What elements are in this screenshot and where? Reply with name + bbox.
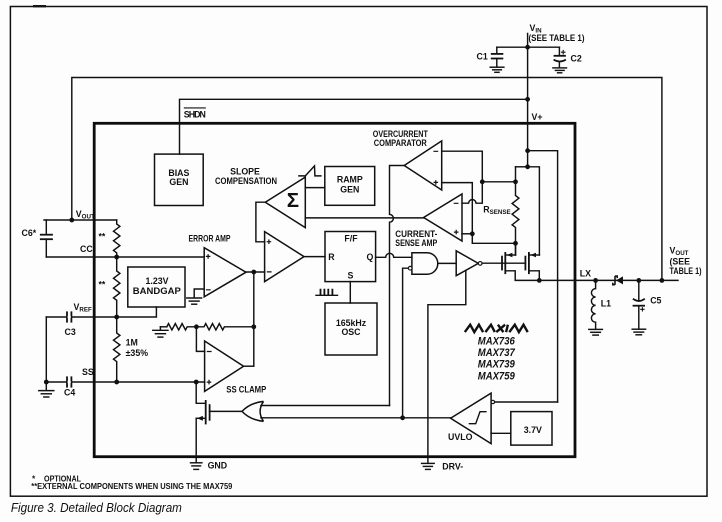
svg-text:GND: GND xyxy=(208,461,228,471)
label VIN xyxy=(529,23,585,43)
svg-text:R: R xyxy=(328,252,335,262)
wire bandgap to VREF xyxy=(46,307,156,317)
svg-text:C2: C2 xyxy=(571,53,582,63)
svg-text:ERROR AMP: ERROR AMP xyxy=(189,233,231,243)
wire current-sense output to sigma xyxy=(305,217,423,219)
svg-text:SENSE AMP: SENSE AMP xyxy=(395,238,437,248)
wire sigma output to PWM comparator xyxy=(256,202,265,242)
wire Q output with hop xyxy=(376,253,412,257)
svg-text:GEN: GEN xyxy=(169,177,188,187)
label VOUT right xyxy=(670,246,702,276)
svg-text:V+: V+ xyxy=(532,112,543,122)
node C5 junction xyxy=(636,278,641,283)
op-amp SS clamp xyxy=(205,341,244,391)
svg-text:L1: L1 xyxy=(601,298,611,308)
node VOUT feedback junction xyxy=(660,278,665,283)
svg-text:**EXTERNAL COMPONENTS WHEN USI: **EXTERNAL COMPONENTS WHEN USING THE MAX… xyxy=(31,481,232,491)
svg-text:C5: C5 xyxy=(650,296,661,306)
wire ramp gen to sigma xyxy=(305,187,325,189)
svg-text:1M: 1M xyxy=(126,338,138,348)
wire OR bottom input / UVLO output line xyxy=(261,417,451,419)
wire compensation resistor line xyxy=(160,326,166,328)
svg-text:Q: Q xyxy=(367,252,374,262)
node CC junction xyxy=(114,255,119,260)
transistor Q1 PMOS xyxy=(502,243,539,280)
node compensation mid xyxy=(194,324,199,329)
svg-text:TABLE 1): TABLE 1) xyxy=(670,266,702,276)
svg-text:C6*: C6* xyxy=(22,228,37,238)
wire gate drive line xyxy=(482,262,525,264)
svg-text:SHDN: SHDN xyxy=(184,110,206,120)
inductor L1 xyxy=(591,280,611,329)
svg-text:DRV-: DRV- xyxy=(442,461,463,471)
node SS resistor junction xyxy=(114,380,119,385)
MAXIM logo xyxy=(465,325,528,332)
svg-text:RAMP: RAMP xyxy=(337,175,363,185)
comparator PWM xyxy=(265,232,304,282)
resistor compensation left xyxy=(167,324,197,330)
clock comb icon xyxy=(316,289,338,296)
wire UVLO output xyxy=(495,401,558,403)
ground DRV- pin xyxy=(422,461,464,471)
capacitor C1 xyxy=(477,47,504,67)
ground under L1 xyxy=(589,329,603,335)
node compensation right xyxy=(251,324,256,329)
comparator overcurrent xyxy=(404,141,442,190)
wire sense top to Rsense xyxy=(482,181,515,183)
diode D1 schottky xyxy=(613,276,623,285)
wire V+ to UVLO sense xyxy=(528,151,558,402)
resistor compensation right xyxy=(196,324,252,330)
wire SS line xyxy=(46,381,204,383)
capacitor C5 xyxy=(633,280,662,328)
oscillator box 165kHz OSC xyxy=(325,303,377,355)
IC boundary box MAX736/737/739/759 xyxy=(94,123,575,456)
svg-text:OSC: OSC xyxy=(341,327,361,337)
wire OR top input from overcurrent xyxy=(261,405,390,407)
svg-text:Σ: Σ xyxy=(287,189,299,212)
node V+ branch xyxy=(525,148,530,153)
svg-text:Figure 3. Detailed Block Diagr: Figure 3. Detailed Block Diagram xyxy=(11,501,182,515)
flip-flop box F/F xyxy=(325,232,376,282)
svg-text:MAX736: MAX736 xyxy=(478,336,516,348)
node VIN-SHDN junction xyxy=(525,97,530,102)
wire SS clamp minus input xyxy=(196,327,204,352)
op-amp sigma summer xyxy=(265,177,305,228)
svg-text:**: ** xyxy=(99,232,106,242)
svg-text:SS CLAMP: SS CLAMP xyxy=(226,385,266,395)
label OVERCURRENT COMPARATOR xyxy=(373,129,429,148)
svg-text:SS: SS xyxy=(82,367,94,377)
node V+ split xyxy=(525,164,530,169)
wire SS clamp output xyxy=(244,365,254,367)
ground GND pin xyxy=(191,461,228,471)
ground under C5 xyxy=(632,329,645,335)
node Rsense bottom xyxy=(513,241,518,246)
wire CC / error amp + input xyxy=(46,256,204,258)
capacitor C6 xyxy=(22,220,53,257)
node Rsense top xyxy=(513,179,518,184)
svg-text:3.7V: 3.7V xyxy=(524,425,542,435)
wire plus net to Rsense bottom xyxy=(472,234,515,244)
node VIN junction xyxy=(525,45,530,50)
wire C1-C2 xyxy=(497,46,560,48)
comparator current-sense amp xyxy=(424,194,462,241)
ground error amp xyxy=(187,298,202,304)
ramp icon xyxy=(299,166,321,176)
node VOUT left xyxy=(69,218,74,223)
node current-sense plus junction xyxy=(470,231,475,236)
comparator UVLO xyxy=(448,393,495,444)
node LX drivers junction xyxy=(537,278,542,283)
wire VOUT feedback top xyxy=(72,78,662,281)
wire S to oscillator xyxy=(349,282,351,303)
wire current-sense minus with hop xyxy=(462,182,482,203)
node VREF junction xyxy=(114,315,119,320)
svg-text:C4: C4 xyxy=(64,388,75,398)
resistor R** upper xyxy=(99,220,120,257)
wire UVLO reference input xyxy=(491,432,511,434)
svg-text:LX: LX xyxy=(580,268,591,278)
wire compensation node vertical xyxy=(253,272,255,366)
svg-text:CC: CC xyxy=(80,244,93,254)
svg-text:MAX739: MAX739 xyxy=(478,359,516,371)
node L1 junction xyxy=(593,278,598,283)
wire error amp output xyxy=(246,271,265,273)
wire AND output xyxy=(438,262,456,264)
node SS clamp plus junction xyxy=(194,380,199,385)
OR gate mirrored xyxy=(242,401,264,421)
bias generator box xyxy=(155,154,204,205)
ramp generator box xyxy=(325,167,375,206)
svg-text:MAX737: MAX737 xyxy=(478,347,516,359)
capacitor C4 xyxy=(64,376,75,397)
svg-text:**: ** xyxy=(99,280,106,290)
svg-text:±35%: ±35% xyxy=(126,348,149,358)
svg-text:C1: C1 xyxy=(477,51,488,61)
wire SHDN rail xyxy=(180,99,528,154)
svg-text:UVLO: UVLO xyxy=(448,432,473,442)
label SHDN xyxy=(184,108,206,120)
footnote optional xyxy=(32,473,81,483)
wire left column VREF to SS xyxy=(45,317,47,382)
transistor Q2 PMOS xyxy=(525,252,539,280)
svg-text:F/F: F/F xyxy=(344,233,358,243)
box 3.7V reference xyxy=(511,412,552,446)
svg-text:1.23V: 1.23V xyxy=(146,276,169,286)
resistor RSENSE xyxy=(512,167,519,255)
svg-text:BANDGAP: BANDGAP xyxy=(133,286,181,296)
wire VOUT node xyxy=(44,219,117,221)
wire V+ split right to Q2 drain xyxy=(528,167,540,255)
svg-text:(SEE: (SEE xyxy=(670,256,691,266)
label SLOPE COMPENSATION xyxy=(215,167,277,186)
wire overcurrent plus input xyxy=(442,183,473,234)
op-amp error amp xyxy=(204,248,246,297)
wire DRV- rail xyxy=(428,270,466,462)
transistor Q3 SS clamp pulldown xyxy=(196,382,209,462)
wire UVLO to AND inverted input xyxy=(403,268,409,418)
node SS left junction xyxy=(44,380,49,385)
capacitor C3 xyxy=(65,311,76,337)
bandgap reference box 1.23V xyxy=(128,267,185,307)
svg-text:C3: C3 xyxy=(65,327,76,337)
wire VIN vertical xyxy=(527,34,529,167)
wire PWM output to R xyxy=(304,256,325,258)
label CURRENT-SENSE AMP xyxy=(395,229,437,248)
wire overcurrent minus input xyxy=(442,151,483,182)
wire error amp minus to ground xyxy=(194,289,204,298)
node error amp output xyxy=(251,270,256,275)
svg-text:S: S xyxy=(348,271,354,281)
svg-text:COMPENSATION: COMPENSATION xyxy=(215,176,277,186)
wire Q3 gate to OR gate xyxy=(210,410,242,412)
AND gate U2 xyxy=(408,253,437,275)
svg-text:COMPARATOR: COMPARATOR xyxy=(374,138,428,148)
ground under C1 xyxy=(490,67,504,72)
wire overcurrent output vertical with hop xyxy=(390,166,405,406)
resistor R** lower xyxy=(99,257,120,317)
ground under C2 xyxy=(553,68,567,73)
capacitor C2 xyxy=(554,47,582,67)
inverter driver U3 xyxy=(456,251,482,276)
node sense top junction xyxy=(480,179,485,184)
ground below C4 node xyxy=(39,382,54,397)
resistor 1M xyxy=(113,317,148,382)
svg-text:GEN: GEN xyxy=(340,184,359,194)
svg-text:MAX759: MAX759 xyxy=(478,371,516,383)
wire V+ split left xyxy=(516,166,528,168)
wire LX output xyxy=(539,279,678,281)
svg-text:(SEE TABLE 1): (SEE TABLE 1) xyxy=(529,33,585,43)
wire current-sense plus input xyxy=(462,233,472,235)
ground compensation xyxy=(153,327,168,337)
node UVLO-AND junction xyxy=(400,415,405,420)
